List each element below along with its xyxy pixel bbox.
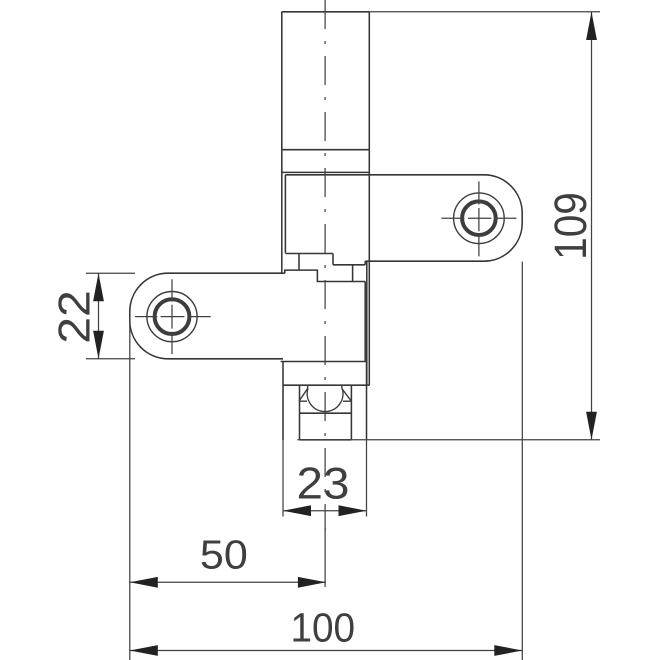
dimension 100: extension line right <box>521 262 523 660</box>
dimension 22: extension lines <box>86 273 135 359</box>
dimension 22: bottom arrow <box>93 331 104 359</box>
dimension 50: right arrow <box>298 577 326 588</box>
right hole crosshair centerlines <box>441 181 516 256</box>
dimension 23: right arrow <box>339 505 367 516</box>
dimension 22: dimension line <box>98 273 100 359</box>
dimension 109: top arrow <box>586 12 597 40</box>
dimension 22: top arrow <box>93 273 104 301</box>
main vertical dash-dot centerline <box>324 0 326 531</box>
left hinge leaf outline <box>130 265 365 362</box>
dimension 50: left arrow <box>130 577 158 588</box>
dimension 23: extension lines <box>283 440 367 517</box>
svg-text:109: 109 <box>545 192 596 260</box>
dimension 100: right arrow <box>494 645 522 656</box>
dimension 50: extension line <box>129 317 131 660</box>
dimension 100: left arrow <box>130 645 158 656</box>
center body side walls below leaves <box>366 261 368 385</box>
bottom block with bearing <box>281 362 370 441</box>
dimension 109: extension lines <box>297 12 600 440</box>
dimension 109: bottom arrow <box>586 412 597 440</box>
svg-text:50: 50 <box>200 532 248 578</box>
svg-text:23: 23 <box>297 460 350 509</box>
right hinge leaf outline <box>285 175 522 270</box>
svg-text:22: 22 <box>51 290 100 344</box>
hinge pin barrel outline (top cylinder) <box>282 12 370 385</box>
dimension 109: dimension line <box>591 12 593 440</box>
left hole crosshair centerlines <box>135 279 211 354</box>
left bushing hole <box>147 292 197 342</box>
dimension 100: dimension line <box>130 650 523 652</box>
svg-text:100: 100 <box>290 604 355 650</box>
dimension 50: dimension line <box>130 581 326 583</box>
bearing inner races and ball <box>299 385 351 411</box>
right bushing hole <box>454 193 505 244</box>
dimension 23: dimension line <box>283 510 367 512</box>
dimension 23: left arrow <box>283 505 311 516</box>
